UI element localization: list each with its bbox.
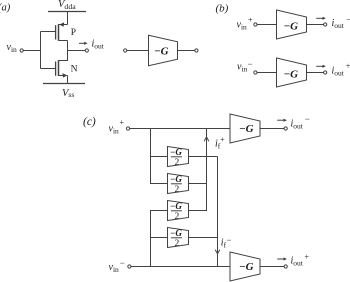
op block -G (b bottom)	[277, 58, 307, 87]
wire: vin terminal to gate bus	[23, 50, 40, 52]
svg-text:−: −	[226, 235, 231, 245]
-G body	[149, 35, 178, 66]
wire: input bus up from vin- to blocks 3,4	[151, 211, 168, 267]
wire: block 1 output to line B	[189, 156, 218, 158]
svg-text:−: −	[346, 15, 350, 25]
svg-text:+: +	[248, 16, 253, 25]
wire: -G output (b bottom)	[307, 72, 324, 74]
svg-text:iout: iout	[92, 39, 105, 51]
wire: output to iout terminal	[68, 50, 86, 52]
svg-text:−G: −G	[239, 261, 254, 273]
svg-text:N: N	[71, 65, 78, 75]
wire: Vdda rail to P source	[67, 12, 69, 25]
svg-text:2: 2	[175, 239, 180, 249]
transistor N (NMOS)	[56, 60, 68, 77]
wire: stub to block 4 input	[151, 237, 168, 239]
svg-text:−: −	[248, 59, 253, 69]
terminal vin+ (c)	[126, 127, 129, 130]
svg-text:+: +	[305, 253, 310, 262]
wire: -G output	[178, 50, 195, 52]
svg-text:(b): (b)	[216, 3, 229, 15]
svg-text:P: P	[71, 28, 76, 38]
op block -G top (c)	[230, 114, 260, 143]
wire: line A (if+ feed) vertical with corner to block 3 output	[189, 129, 207, 211]
svg-text:iout: iout	[291, 118, 304, 130]
transistor P (PMOS)	[56, 22, 68, 40]
op block -G/2 #1	[168, 147, 189, 168]
op block -G/2 #4	[168, 228, 189, 249]
wire: P gate lead	[41, 31, 56, 33]
svg-text:iout: iout	[332, 18, 345, 30]
op block -G/2 #2	[168, 174, 189, 195]
arrow iout current direction	[79, 42, 88, 45]
arrow iout+ current direction (b bottom)	[316, 65, 326, 68]
svg-text:Vss: Vss	[62, 88, 74, 99]
svg-text:−G: −G	[170, 228, 182, 238]
arrow iout- current direction (b top)	[316, 17, 326, 20]
op block -G bottom (c)	[230, 252, 260, 281]
wire: line B (if- feed) vertical	[217, 157, 219, 267]
wire: input to -G	[127, 50, 149, 52]
svg-text:−: −	[120, 258, 125, 268]
svg-text:Vdda: Vdda	[58, 0, 76, 11]
op block -G (b top)	[277, 10, 307, 39]
wire: -G top output (c)	[260, 128, 284, 130]
transconductor symbol -G (part a)	[124, 35, 198, 66]
svg-text:−G: −G	[170, 174, 182, 184]
terminal: -G output	[195, 49, 198, 52]
svg-text:2: 2	[175, 185, 180, 195]
op block -G/2 #3	[168, 201, 189, 222]
svg-text:+: +	[346, 61, 350, 70]
svg-text:+: +	[220, 135, 225, 144]
svg-text:vin: vin	[109, 262, 120, 274]
wire: vin- to -G (b bottom)	[257, 72, 277, 74]
terminal vin- (c)	[128, 265, 131, 268]
svg-text:vin: vin	[237, 19, 248, 31]
wire: N gate lead	[41, 68, 56, 70]
svg-text:2: 2	[175, 158, 180, 168]
terminal vin	[20, 49, 23, 52]
wire: N source to Vss rail	[67, 76, 69, 84]
terminal vin- (b bottom)	[254, 71, 257, 74]
svg-text:−: −	[305, 114, 310, 124]
terminal: -G input	[124, 49, 127, 52]
arrow if- direction	[215, 250, 220, 254]
wire: block 4 output to line B	[189, 237, 218, 239]
svg-text:−G: −G	[170, 201, 182, 211]
svg-text:vin: vin	[7, 42, 18, 54]
svg-text:2: 2	[175, 212, 180, 222]
wire: output node to N drain	[59, 51, 68, 61]
svg-text:−G: −G	[239, 123, 254, 135]
terminal iout	[85, 49, 88, 52]
svg-text:(a): (a)	[0, 2, 11, 13]
svg-text:iout: iout	[332, 65, 345, 77]
svg-text:(c): (c)	[83, 116, 96, 128]
terminal vin+ (b top)	[254, 23, 257, 26]
svg-text:−G: −G	[284, 68, 299, 80]
svg-text:−G: −G	[284, 20, 299, 32]
svg-text:iout: iout	[291, 256, 304, 268]
wire: stub to block 1 input	[151, 156, 168, 158]
terminal iout+ (b bottom)	[324, 71, 327, 74]
wire: -G bottom output (c)	[260, 266, 284, 268]
svg-text:vin: vin	[109, 124, 120, 136]
arrow iout- current direction (c)	[277, 119, 287, 122]
terminal iout- (c)	[284, 127, 287, 130]
wire: top rail vin+ to -G input	[130, 128, 230, 130]
Vss rail	[43, 83, 85, 85]
svg-text:+: +	[120, 118, 125, 127]
arrow if+ direction	[204, 137, 209, 142]
Vdda rail	[48, 11, 86, 13]
wire: vin+ to -G (b top)	[257, 24, 277, 26]
wire: gate bus vertical	[40, 32, 42, 69]
wire: input bus down to -G/2 blocks 1,2	[151, 129, 168, 184]
arrow iout+ current direction (c)	[277, 257, 287, 260]
wire: P drain to output node	[67, 41, 69, 51]
svg-text:−G: −G	[170, 147, 182, 157]
wire: -G output (b top)	[307, 24, 324, 26]
wire: bottom rail vin- to -G input	[131, 266, 230, 268]
svg-text:vin: vin	[237, 62, 248, 74]
terminal iout+ (c)	[284, 265, 287, 268]
wire: block 2 output to line A	[189, 183, 207, 185]
svg-text:−G: −G	[154, 46, 169, 58]
terminal iout- (b top)	[324, 23, 327, 26]
